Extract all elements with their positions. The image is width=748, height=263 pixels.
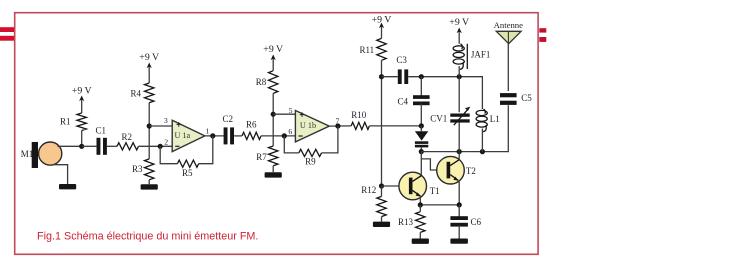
svg-text:C1: C1 [96, 126, 107, 136]
node L1 bottom [480, 149, 485, 154]
resistor R13 [398, 205, 425, 233]
wire T2 collector to tank rail [458, 152, 460, 160]
node divider to pin 5 [271, 112, 276, 117]
node JAF1 / CV1 tap [457, 74, 462, 79]
red marks right edge [539, 28, 546, 42]
svg-text:+9 V: +9 V [72, 86, 92, 97]
resistor R10 [351, 110, 369, 129]
op-amp U1a [164, 116, 210, 151]
resistor R12 [361, 185, 386, 217]
node T2 emitter / C6 [457, 202, 462, 207]
capacitor C2 [222, 114, 234, 144]
ground (R7) [265, 166, 282, 178]
svg-text:JAF1: JAF1 [471, 49, 491, 59]
wire feedback to pin 2 tap [160, 146, 177, 163]
svg-text:R12: R12 [361, 185, 376, 195]
wire mic to ground [53, 165, 68, 184]
wire T1 base [382, 185, 410, 187]
svg-text:CV1: CV1 [430, 114, 447, 124]
svg-text:1: 1 [206, 126, 210, 135]
resistor R4 [130, 83, 153, 103]
svg-text:R5: R5 [182, 168, 193, 178]
svg-text:R8: R8 [256, 77, 267, 87]
varicap diode [415, 126, 428, 152]
svg-text:M1: M1 [21, 149, 34, 159]
node C3 tap [379, 74, 384, 79]
ground (microphone) [59, 184, 76, 189]
resistor R1 [60, 113, 86, 131]
red double rule left [0, 27, 14, 41]
wire U1b output [329, 125, 351, 127]
RF choke JAF1 [453, 44, 490, 77]
microphone M1 [21, 142, 62, 168]
svg-text:R6: R6 [246, 120, 257, 130]
node CV1 bottom / T2 collector [457, 149, 462, 154]
wire C2 to R6 [234, 135, 242, 137]
capacitor C6 [450, 205, 481, 239]
resistor R7 [256, 146, 278, 166]
capacitor C4 [397, 77, 429, 126]
svg-text:U 1b: U 1b [300, 121, 316, 130]
wire R4 to R3 (divider column) [148, 103, 150, 159]
supply +9V (JAF1) [449, 17, 469, 44]
node varicap anode [419, 123, 424, 128]
wire tank bottom rail [421, 105, 508, 151]
svg-text:R4: R4 [130, 88, 141, 98]
ground (R13) [412, 232, 429, 244]
wire R2 to pin 2 (crosses divider) [139, 145, 173, 147]
node T1 emitter / R13 [418, 202, 423, 207]
svg-text:T1: T1 [430, 186, 440, 196]
svg-text:R9: R9 [305, 156, 316, 166]
wire T2 emitter down [458, 181, 460, 205]
resistor R5 [177, 160, 198, 178]
node varicap cathode / tank rail [419, 149, 424, 154]
capacitor C5 [500, 93, 532, 105]
wire R11 column down [381, 60, 383, 186]
transistor T1 [399, 172, 440, 200]
wire R8 to R7 (divider column) [272, 93, 274, 146]
resistor R3 [132, 159, 154, 180]
svg-text:R13: R13 [398, 217, 414, 227]
svg-text:Antenne: Antenne [494, 20, 524, 30]
svg-text:+9 V: +9 V [263, 44, 283, 55]
wire C3 to L1 corner (top rail) [408, 77, 482, 109]
svg-text:C6: C6 [471, 217, 482, 227]
node C4 tap [419, 74, 424, 79]
wire U1a output [205, 135, 225, 137]
svg-text:R10: R10 [351, 110, 367, 120]
svg-text:R1: R1 [60, 117, 71, 127]
svg-text:6: 6 [288, 127, 292, 136]
wire R6 to pin 6 (crosses divider) [261, 135, 295, 137]
wire R10 to varicap node (crosses R11 column) [369, 125, 421, 127]
svg-text:Fig.1 Schéma électrique du min: Fig.1 Schéma électrique du mini émetteur… [37, 230, 258, 242]
node T1 base / R12 [379, 183, 384, 188]
node feedback tap pin2 [158, 144, 163, 149]
variable capacitor CV1 [430, 77, 470, 152]
wire emitter rail [420, 204, 459, 206]
resistor R8 [256, 71, 278, 94]
ground (R3) [141, 180, 158, 190]
wire T1 collector to varicap node [420, 152, 422, 176]
op-amp U1b [288, 106, 339, 142]
svg-text:2: 2 [164, 137, 168, 146]
inductor L1 [476, 109, 500, 152]
svg-text:R3: R3 [132, 164, 143, 174]
resistor R9 [299, 149, 322, 166]
supply +9V (R1) [72, 86, 92, 113]
wire node to C3 [382, 76, 398, 78]
resistor R2 [117, 132, 139, 150]
ground (C6) [450, 239, 468, 244]
ground (R12) [373, 217, 390, 227]
supply +9V (R8) [263, 44, 283, 71]
wire R1 to node [81, 131, 83, 147]
node mic/R1/C1 junction [79, 144, 84, 149]
svg-text:T2: T2 [466, 166, 476, 176]
svg-text:+9 V: +9 V [449, 17, 469, 28]
svg-text:L1: L1 [490, 114, 500, 124]
svg-text:R2: R2 [122, 132, 133, 142]
wire T1 emitter down [419, 196, 421, 205]
svg-text:+9 V: +9 V [139, 52, 159, 63]
capacitor C1 [96, 126, 107, 155]
svg-text:R11: R11 [360, 45, 375, 55]
svg-text:C4: C4 [397, 96, 408, 106]
antenna [494, 20, 524, 91]
wire pin 3 [149, 125, 172, 127]
node U1a output [210, 133, 215, 138]
wire node to C1 [82, 145, 97, 147]
svg-text:U 1a: U 1a [174, 131, 190, 140]
wire mic output to node [58, 145, 82, 147]
capacitor C3 [396, 55, 408, 84]
caption Fig.1 [37, 230, 258, 242]
svg-text:5: 5 [289, 106, 293, 115]
svg-text:C5: C5 [521, 93, 532, 103]
svg-text:R7: R7 [256, 152, 267, 162]
wire pin 5 [273, 113, 295, 115]
node pin 6 feedback tap [282, 133, 287, 138]
wire C1 to R2 [107, 145, 117, 147]
wire feedback to pin 6 tap [284, 136, 299, 153]
node divider to pin 3 [147, 123, 152, 128]
resistor R11 [360, 38, 387, 60]
svg-text:C3: C3 [396, 55, 407, 65]
wire feedback down from output [322, 126, 338, 153]
wire T2 base path [421, 159, 446, 170]
wire feedback down from output [199, 136, 213, 164]
svg-text:3: 3 [164, 116, 168, 125]
supply +9V (R4) [139, 52, 159, 83]
node U1b output [335, 123, 340, 128]
frame border [15, 13, 538, 255]
transistor T2 [437, 156, 476, 184]
resistor R6 [242, 120, 261, 140]
svg-text:C2: C2 [222, 114, 233, 124]
supply +9V (R11) [372, 15, 392, 39]
